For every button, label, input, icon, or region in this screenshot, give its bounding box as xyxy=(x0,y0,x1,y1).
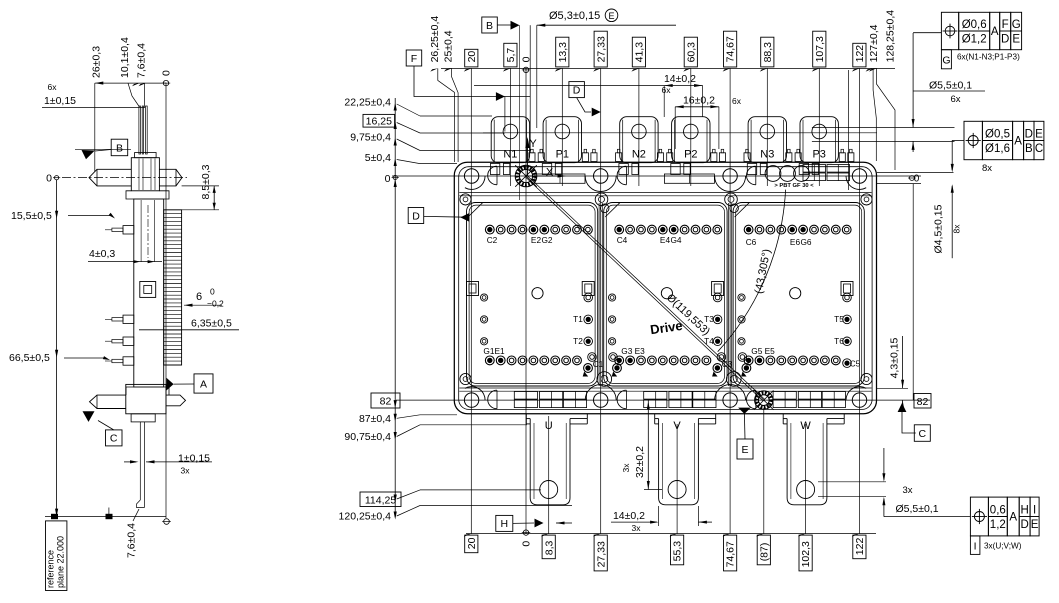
svg-text:32±0,2: 32±0,2 xyxy=(634,446,646,478)
svg-text:6x: 6x xyxy=(48,82,58,92)
svg-text:Ø5,5±0,1: Ø5,5±0,1 xyxy=(895,503,938,515)
svg-text:6,35±0,5: 6,35±0,5 xyxy=(191,318,232,330)
svg-text:D: D xyxy=(1001,34,1009,46)
svg-text:D: D xyxy=(1025,128,1033,140)
svg-text:128,25±0,4: 128,25±0,4 xyxy=(885,10,897,63)
svg-text:T3: T3 xyxy=(704,314,714,324)
svg-text:66,5±0,5: 66,5±0,5 xyxy=(9,352,50,364)
svg-text:> PBT GF 30 <: > PBT GF 30 < xyxy=(774,183,814,189)
svg-text:Ø4,5±0,15: Ø4,5±0,15 xyxy=(933,204,945,253)
svg-text:G: G xyxy=(942,55,950,67)
svg-text:7,6±0,4: 7,6±0,4 xyxy=(136,43,148,78)
svg-text:1±0,15: 1±0,15 xyxy=(44,95,76,107)
svg-text:82: 82 xyxy=(380,396,392,408)
svg-text:6x: 6x xyxy=(662,85,672,95)
svg-text:8,5±0,3: 8,5±0,3 xyxy=(200,164,212,199)
svg-text:114,25: 114,25 xyxy=(365,495,396,507)
svg-text:4,3±0,15: 4,3±0,15 xyxy=(889,337,901,378)
svg-text:G4: G4 xyxy=(670,235,681,245)
svg-text:G6: G6 xyxy=(800,237,811,247)
svg-text:C: C xyxy=(919,428,927,440)
svg-text:55,3: 55,3 xyxy=(672,541,684,562)
svg-text:E: E xyxy=(1012,34,1020,46)
svg-text:D: D xyxy=(412,210,420,222)
svg-text:F: F xyxy=(1002,19,1009,31)
svg-text:A: A xyxy=(1014,136,1022,148)
svg-text:B: B xyxy=(486,20,493,32)
svg-text:T2: T2 xyxy=(573,336,583,346)
svg-text:5±0,4: 5±0,4 xyxy=(365,152,391,164)
svg-text:6x: 6x xyxy=(950,94,960,105)
svg-text:C: C xyxy=(110,433,118,445)
svg-text:(87): (87) xyxy=(758,543,770,562)
svg-text:27,33: 27,33 xyxy=(595,36,607,62)
svg-text:F: F xyxy=(411,53,417,65)
svg-text:26±0,3: 26±0,3 xyxy=(91,46,103,78)
svg-text:16,25: 16,25 xyxy=(366,115,392,127)
svg-text:3x: 3x xyxy=(902,485,912,496)
svg-text:G: G xyxy=(1012,19,1021,31)
svg-text:0: 0 xyxy=(161,70,173,76)
svg-text:20: 20 xyxy=(466,51,478,63)
svg-text:T4: T4 xyxy=(704,336,714,346)
svg-text:0: 0 xyxy=(914,174,920,185)
svg-text:74,67: 74,67 xyxy=(725,541,737,567)
svg-text:C5: C5 xyxy=(850,359,861,369)
svg-text:14±0,2: 14±0,2 xyxy=(664,73,696,85)
svg-text:I: I xyxy=(974,541,977,553)
svg-text:74,67: 74,67 xyxy=(725,36,737,62)
svg-text:0,6: 0,6 xyxy=(990,504,1006,516)
svg-text:87±0,4: 87±0,4 xyxy=(359,413,391,425)
svg-text:8x: 8x xyxy=(982,163,992,174)
svg-text:122: 122 xyxy=(854,45,866,63)
svg-text:C4: C4 xyxy=(617,235,628,245)
svg-text:E: E xyxy=(1035,128,1043,140)
svg-text:0: 0 xyxy=(385,173,391,185)
svg-text:20: 20 xyxy=(466,537,478,549)
svg-text:E4: E4 xyxy=(660,235,671,245)
svg-text:41,3: 41,3 xyxy=(634,42,646,63)
svg-text:102,3: 102,3 xyxy=(800,541,812,567)
svg-text:4±0,3: 4±0,3 xyxy=(89,248,115,260)
svg-text:0: 0 xyxy=(521,541,533,547)
svg-text:B: B xyxy=(1025,143,1033,155)
svg-text:0: 0 xyxy=(46,173,52,185)
svg-text:7,6±0,4: 7,6±0,4 xyxy=(126,523,138,558)
svg-text:16±0,2: 16±0,2 xyxy=(683,95,715,107)
svg-text:22,25±0,4: 22,25±0,4 xyxy=(344,97,391,109)
svg-text:Ø1,2: Ø1,2 xyxy=(962,34,987,46)
svg-text:90,75±0,4: 90,75±0,4 xyxy=(344,431,391,443)
svg-text:D: D xyxy=(573,84,581,96)
svg-text:H: H xyxy=(1021,504,1029,516)
svg-text:1±0,15: 1±0,15 xyxy=(178,453,210,465)
svg-text:0: 0 xyxy=(521,56,533,62)
svg-text:Ø1,6: Ø1,6 xyxy=(985,143,1010,155)
svg-text:A: A xyxy=(200,378,207,390)
svg-text:107,3: 107,3 xyxy=(814,36,826,62)
svg-text:9,75±0,4: 9,75±0,4 xyxy=(350,132,391,144)
svg-text:0: 0 xyxy=(210,287,215,297)
svg-text:82: 82 xyxy=(917,396,929,408)
svg-text:14±0,2: 14±0,2 xyxy=(613,510,645,522)
svg-text:X: X xyxy=(546,167,554,179)
svg-text:A: A xyxy=(1009,512,1017,524)
svg-text:Ø5,5±0,1: Ø5,5±0,1 xyxy=(929,80,972,92)
svg-text:B: B xyxy=(116,142,123,154)
svg-text:Ø5,3±0,15: Ø5,3±0,15 xyxy=(549,10,600,22)
svg-text:C3: C3 xyxy=(722,359,733,369)
svg-text:6: 6 xyxy=(196,291,202,303)
svg-text:120,25±0,4: 120,25±0,4 xyxy=(339,511,392,523)
svg-text:3x(U;V;W): 3x(U;V;W) xyxy=(984,542,1022,551)
svg-text:60,3: 60,3 xyxy=(685,42,697,63)
svg-text:I: I xyxy=(1033,504,1036,516)
svg-text:Ø0,5: Ø0,5 xyxy=(985,128,1010,140)
svg-text:T6: T6 xyxy=(834,336,844,346)
svg-text:G2: G2 xyxy=(541,235,552,245)
svg-text:E6: E6 xyxy=(790,237,801,247)
svg-text:88,3: 88,3 xyxy=(762,42,774,63)
svg-text:plane 22.000: plane 22.000 xyxy=(56,536,66,588)
svg-text:3x: 3x xyxy=(621,463,631,473)
svg-text:3x: 3x xyxy=(632,523,642,533)
svg-text:26,25±0,4: 26,25±0,4 xyxy=(429,16,441,63)
svg-text:127±0,4: 127±0,4 xyxy=(868,24,880,62)
svg-text:122: 122 xyxy=(854,538,866,556)
svg-text:10,1±0,4: 10,1±0,4 xyxy=(119,37,131,78)
svg-text:C2: C2 xyxy=(487,235,498,245)
svg-text:27,33: 27,33 xyxy=(595,541,607,567)
svg-text:G5 E5: G5 E5 xyxy=(751,346,775,356)
svg-text:5,7: 5,7 xyxy=(505,48,517,63)
svg-text:C1: C1 xyxy=(593,359,604,369)
svg-text:−0,2: −0,2 xyxy=(207,299,224,309)
svg-text:13,3: 13,3 xyxy=(557,42,569,63)
svg-text:3x: 3x xyxy=(181,466,191,476)
svg-text:8x: 8x xyxy=(952,224,962,234)
svg-text:E: E xyxy=(1031,519,1039,531)
svg-text:A: A xyxy=(991,26,999,38)
svg-text:reference: reference xyxy=(46,550,56,588)
svg-text:E: E xyxy=(608,11,614,21)
svg-text:T1: T1 xyxy=(573,314,583,324)
svg-text:6x: 6x xyxy=(732,96,742,106)
svg-text:D: D xyxy=(1021,519,1029,531)
svg-text:H: H xyxy=(501,518,509,530)
svg-text:C6: C6 xyxy=(746,237,757,247)
svg-text:6x(N1-N3;P1-P3): 6x(N1-N3;P1-P3) xyxy=(957,53,1020,62)
svg-text:G1E1: G1E1 xyxy=(483,346,505,356)
svg-text:C: C xyxy=(1035,143,1043,155)
svg-text:G3 E3: G3 E3 xyxy=(621,346,645,356)
svg-text:T5: T5 xyxy=(834,314,844,324)
svg-text:1,2: 1,2 xyxy=(990,519,1006,531)
svg-text:25±0,4: 25±0,4 xyxy=(443,30,455,62)
svg-text:E2: E2 xyxy=(531,235,542,245)
svg-text:E: E xyxy=(741,444,748,456)
svg-text:Ø0,6: Ø0,6 xyxy=(962,19,987,31)
svg-text:8,3: 8,3 xyxy=(543,540,555,555)
svg-text:15,5±0,5: 15,5±0,5 xyxy=(11,210,52,222)
